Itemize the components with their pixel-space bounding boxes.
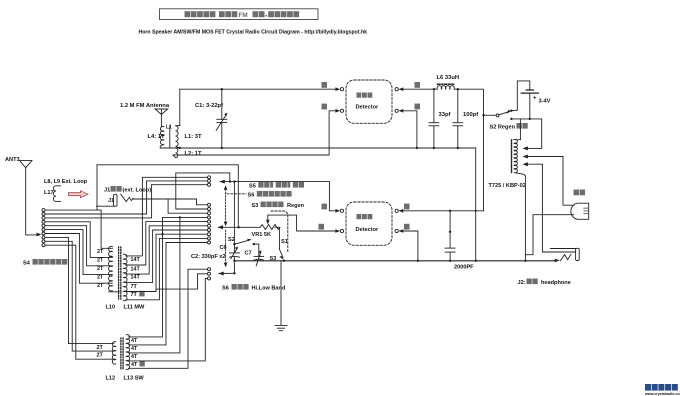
- label L8 L9 ext loop: [44, 179, 88, 196]
- wire L13 t4 to ring C3: [129, 278, 208, 361]
- T725 tap1 arrow: [523, 146, 542, 150]
- jack J1 plug: [114, 194, 117, 206]
- svg-text:C7: C7: [245, 251, 252, 257]
- T725 tap3 arrow to jack: [523, 162, 576, 252]
- wire top bus to detector1 hot: [180, 88, 336, 90]
- potentiometer VR1 5K: [252, 225, 281, 239]
- title box: [160, 9, 319, 20]
- node small riser: [229, 180, 231, 182]
- coil L10: [109, 246, 113, 291]
- det2 hot terminal: [322, 204, 344, 213]
- title chinese text: [185, 11, 300, 19]
- svg-text:S3: S3: [252, 203, 259, 209]
- wire S4 r1: [45, 209, 101, 211]
- switch S1 lever: [279, 249, 285, 262]
- node L6 left: [433, 88, 435, 90]
- switch S2 regen: [484, 81, 542, 131]
- node L6 right: [457, 88, 459, 90]
- svg-text:L1: L1: [166, 125, 172, 131]
- svg-text:L1: 3T: L1: 3T: [185, 134, 203, 140]
- labels 2T L12: [97, 345, 104, 359]
- coil L12: [112, 342, 116, 365]
- labels L11: [131, 257, 141, 298]
- svg-text:L17: L17: [44, 190, 54, 196]
- wire S4 r10 to L12 t3: [45, 245, 114, 359]
- wire L10 t1 from ring1: [101, 210, 112, 248]
- label S5 band select: [249, 182, 304, 190]
- coil L1: [166, 125, 202, 148]
- svg-text:33pf: 33pf: [439, 112, 451, 118]
- wire ring C2 tap: [156, 274, 207, 289]
- svg-text:S2 Regen: S2 Regen: [490, 125, 516, 131]
- svg-text:L11 MW: L11 MW: [124, 305, 146, 311]
- svg-text:Regen: Regen: [287, 203, 305, 209]
- svg-text:VR1 5K: VR1 5K: [252, 232, 272, 238]
- label S6 coil taps with leader: [227, 191, 292, 199]
- wire ground bus top section: [160, 147, 475, 149]
- dashed gang link S5/S6 lower: [225, 230, 227, 263]
- wire ext-loop link down to S5 wire: [229, 173, 231, 182]
- node S2 branch: [482, 114, 484, 116]
- svg-text:headphone: headphone: [541, 280, 571, 286]
- svg-text:3-4V: 3-4V: [539, 99, 551, 105]
- wire L11 t6 to ring B9: [126, 238, 208, 299]
- svg-text:14T: 14T: [131, 257, 141, 263]
- battery 3-4V: [521, 90, 550, 119]
- speaker label: [574, 190, 586, 196]
- svg-text:4T: 4T: [131, 338, 138, 344]
- svg-text:2000PF: 2000PF: [454, 265, 474, 271]
- det1 gnd terminal: [395, 104, 420, 113]
- svg-text:L10: L10: [106, 305, 116, 311]
- svg-text:+: +: [533, 96, 537, 102]
- capacitor 2000PF: [445, 211, 474, 271]
- svg-text:4T: 4T: [131, 362, 138, 368]
- wire L11 t1 to ring A1: [126, 177, 208, 256]
- det1 hot terminal: [322, 82, 344, 91]
- switch S2 band: [228, 237, 255, 245]
- wire top box to VR1 bus: [97, 165, 238, 228]
- svg-text:14T: 14T: [131, 266, 141, 272]
- wire ext loop link to ring B2: [176, 173, 230, 209]
- labels 2T L10: [97, 249, 104, 289]
- headphone jack J2: [551, 248, 580, 262]
- ring A group: [208, 176, 211, 186]
- L10 bottom stub: [109, 291, 120, 293]
- svg-text:L8, L9 Ext. Loop: L8, L9 Ext. Loop: [44, 179, 88, 185]
- wire VR1 right to S1: [275, 227, 279, 249]
- det2 gnd terminal: [395, 224, 409, 233]
- svg-text:T725 / KBP-02: T725 / KBP-02: [489, 183, 526, 189]
- svg-text:4T: 4T: [131, 354, 138, 360]
- det2 out terminal: [395, 204, 409, 213]
- wire ring B4 to L13 t1: [129, 217, 208, 337]
- wire battery bus to T725 tap1: [541, 119, 543, 148]
- node C1 bottom: [221, 147, 223, 149]
- wire L6 out right and down to det2 out: [458, 89, 484, 211]
- core L4/L1: [169, 126, 171, 149]
- coil L2: [173, 148, 202, 158]
- svg-text:L13 SW: L13 SW: [124, 376, 145, 382]
- label J1 ext loop: [104, 186, 151, 204]
- svg-text:7T: 7T: [131, 284, 138, 290]
- labels L10 L11 MW: [106, 305, 146, 311]
- svg-text:C1: 3-22pf: C1: 3-22pf: [195, 103, 223, 109]
- wire S4 r2 to ring A2: [45, 181, 146, 214]
- svg-text:2T: 2T: [97, 258, 104, 264]
- svg-text:1.2 M FM Antenna: 1.2 M FM Antenna: [120, 103, 170, 109]
- wire J1 tip branch to ring B3: [168, 199, 207, 213]
- svg-text:L2: 1T: L2: 1T: [185, 151, 203, 157]
- wire L11 t4 to ring B7: [126, 230, 208, 282]
- wire J1 tip to selector B1: [133, 199, 207, 205]
- node VR1 wire / riser: [238, 226, 240, 228]
- coil L13: [126, 335, 129, 370]
- svg-text:S6: S6: [222, 286, 229, 292]
- svg-text:7T: 7T: [131, 292, 138, 298]
- svg-text:FM: FM: [239, 12, 248, 19]
- wire L2 to det1 in: [173, 111, 336, 155]
- wire box left down: [96, 165, 98, 210]
- svg-text:S5: S5: [249, 184, 256, 190]
- labels L12 L13 SW: [106, 376, 145, 382]
- svg-text:J1: J1: [104, 188, 110, 194]
- coil L17: [53, 186, 60, 202]
- wire S4 r5 to L10 t3: [45, 226, 112, 266]
- label J2 headphone: [518, 279, 571, 287]
- svg-text:2T: 2T: [97, 283, 104, 289]
- wire S4 r6 to L10 t4: [45, 230, 112, 275]
- svg-text:ANT3: ANT3: [5, 157, 20, 163]
- svg-text:S6: S6: [248, 193, 255, 199]
- svg-text:2T: 2T: [97, 249, 104, 255]
- svg-text:S3: S3: [270, 256, 277, 262]
- arrow to selector B: [218, 225, 223, 229]
- wire det1 gnd down: [403, 111, 417, 148]
- coil L4: [148, 126, 166, 148]
- svg-text:L6 33uH: L6 33uH: [437, 75, 460, 81]
- svg-text:2T: 2T: [97, 353, 104, 359]
- ring A3 wire: [152, 184, 208, 186]
- core L10/L11: [119, 247, 121, 299]
- S4 tap rings: [42, 209, 45, 247]
- capacitor 33pf: [429, 89, 450, 148]
- wire det2 out to right riser: [403, 210, 483, 212]
- dashed gang link S5/S6 upper: [225, 189, 227, 222]
- wire L11 t3 to ring B6: [126, 226, 208, 274]
- wire S4 r8 to L12 t1: [45, 237, 114, 343]
- transformer T725 winding: [514, 139, 525, 176]
- svg-text:C2: 330pF x2: C2: 330pF x2: [191, 254, 226, 260]
- speaker: [571, 203, 589, 219]
- VR1 wiper: [266, 215, 336, 231]
- wire S4 r7 to L10 t5: [45, 234, 112, 284]
- det1 out terminal: [395, 82, 420, 91]
- coil L11: [123, 254, 127, 301]
- label S3 regen: [252, 202, 305, 210]
- svg-text:www.crystalradio.cn: www.crystalradio.cn: [644, 392, 680, 396]
- svg-text:S1: S1: [281, 239, 288, 245]
- wire L11 t5 to ring B8: [126, 234, 208, 291]
- wire ring B10 to L13 t2: [129, 243, 208, 345]
- capacitor C7 (variable): [245, 243, 264, 266]
- detector U1 box: [346, 80, 392, 123]
- wire T725 bottom to bus: [524, 176, 526, 261]
- svg-text:S2: S2: [228, 237, 235, 243]
- detector U2 box: [346, 202, 392, 245]
- wire det2 gnd to bus: [403, 231, 418, 261]
- jack J1 tip contact: [121, 194, 133, 201]
- inductor L6 33uH: [434, 75, 459, 89]
- S5 selector wire to det2 hot: [220, 182, 336, 211]
- svg-text:14T: 14T: [131, 275, 141, 281]
- svg-text:Detector: Detector: [356, 105, 380, 111]
- svg-text:4T: 4T: [131, 346, 138, 352]
- ground at S1: [275, 261, 287, 331]
- wire L13 t3 up: [129, 217, 180, 353]
- antenna ANT3: [5, 157, 42, 236]
- transformer T725 core: [511, 140, 513, 173]
- wire S4 r9 to L12 t2: [45, 241, 114, 351]
- wire speaker bottom to bus: [525, 215, 573, 255]
- capacitor C1 3-22pf: [195, 89, 228, 148]
- node L1/L2 junction: [179, 147, 181, 149]
- label S6 hi-low band: [222, 284, 286, 292]
- node C1 top: [221, 88, 223, 90]
- T725 tap2 arrow to speaker: [523, 155, 574, 206]
- ext loop arrow: [69, 191, 89, 198]
- core L12/L13: [121, 338, 123, 369]
- svg-text:2T: 2T: [97, 275, 104, 281]
- svg-text:2T: 2T: [97, 345, 104, 351]
- ring A2 wire: [147, 180, 208, 182]
- wire det1 out to L6: [403, 88, 434, 90]
- wire S4 r3 to ring A3: [45, 185, 151, 218]
- logo crystalradio: [644, 384, 680, 396]
- svg-text:100pf: 100pf: [463, 112, 478, 118]
- dashed gang link S3/S1: [271, 211, 288, 253]
- wire L13 t5 to ring C1: [129, 269, 208, 368]
- ring B group: [208, 203, 211, 244]
- wire gnd bus down right side: [475, 148, 477, 261]
- det1 in terminal: [322, 104, 344, 113]
- capacitor 100pf: [453, 89, 478, 148]
- svg-text:Hi.Low Band: Hi.Low Band: [252, 286, 286, 292]
- wire S4 r4 to L10 t2: [45, 222, 112, 258]
- main bottom bus: [234, 260, 555, 262]
- det2 in terminal: [319, 224, 344, 233]
- svg-text:2T: 2T: [97, 266, 104, 272]
- selector C wiper wire: [219, 272, 235, 274]
- svg-text:Horn Speaker AM/SW/FM MOS FET: Horn Speaker AM/SW/FM MOS FET Crystal Ra…: [139, 29, 368, 35]
- labels L13: [131, 338, 138, 368]
- label S4 antenna coil taps: [23, 259, 67, 267]
- svg-text:S4: S4: [23, 261, 31, 267]
- FM antenna 1.2M: [120, 103, 170, 127]
- wire T725 top to battery bus: [519, 119, 521, 140]
- wire J1 sleeve to S4 ring1: [97, 205, 115, 207]
- ring C group: [208, 268, 211, 280]
- wire VR1 left (wiper bus to S5 selector): [218, 226, 260, 228]
- wire L1 top to top bus: [179, 89, 181, 125]
- svg-text:L12: L12: [106, 376, 116, 382]
- vertical riser C6 to S5 wire: [233, 182, 235, 245]
- capacitor C6 (variable): [220, 244, 240, 273]
- svg-text:Detector: Detector: [356, 227, 380, 233]
- wire L11 t2 to ring B5: [126, 222, 208, 265]
- svg-text:J2:: J2:: [518, 280, 526, 286]
